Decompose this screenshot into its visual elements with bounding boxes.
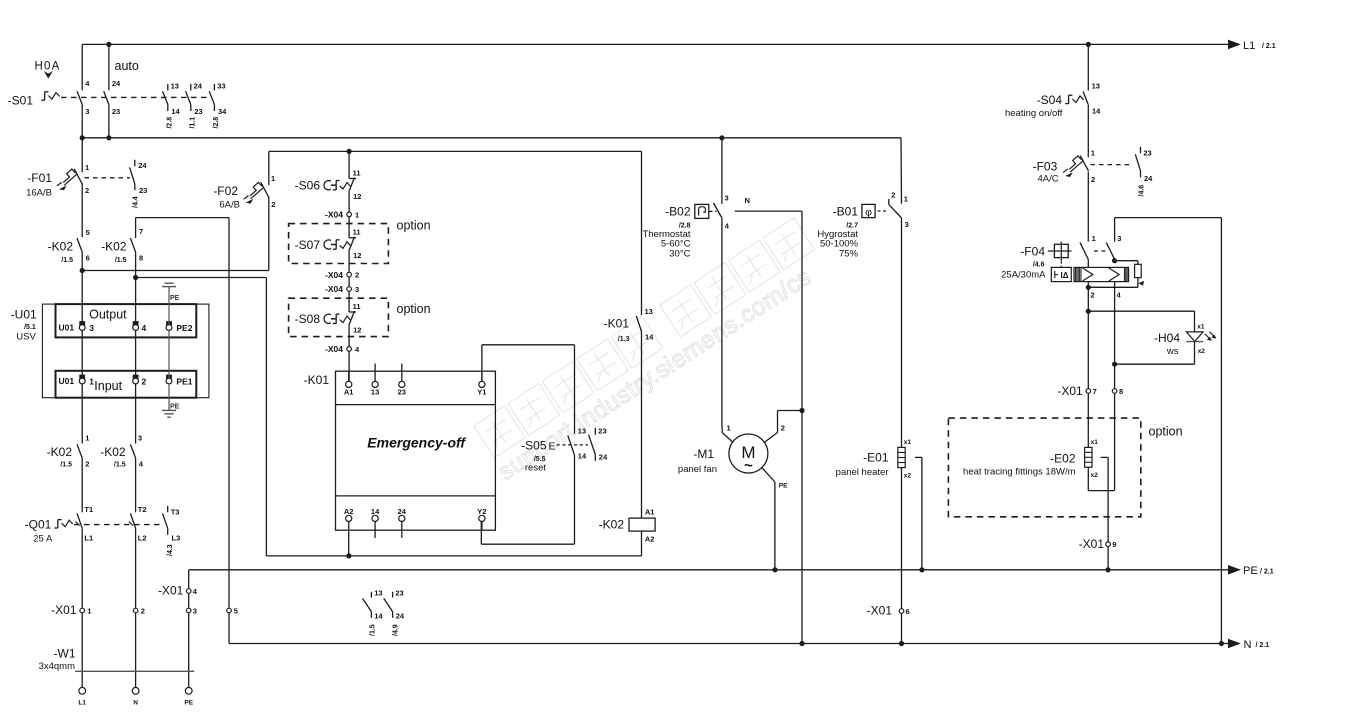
svg-text:x2: x2 (1198, 348, 1206, 355)
svg-text:A1: A1 (344, 388, 354, 397)
svg-text:A2: A2 (645, 535, 655, 544)
svg-text:13: 13 (371, 388, 379, 397)
heater E02 heat tracing (963, 439, 1098, 479)
svg-text:24: 24 (398, 507, 407, 516)
svg-text:U01: U01 (59, 376, 75, 386)
wire PE bus (189, 569, 1240, 571)
svg-text:x1: x1 (1197, 323, 1205, 330)
svg-text:2: 2 (781, 424, 785, 433)
svg-text:PE: PE (170, 403, 180, 410)
node S06 tap (347, 149, 352, 154)
wire F03 pin2 to F04 (1087, 172, 1089, 242)
svg-text:T3: T3 (171, 508, 180, 517)
wire S04-14 to F03 (1087, 105, 1089, 158)
svg-text:-X04: -X04 (325, 270, 343, 280)
svg-text:3: 3 (89, 323, 94, 333)
svg-text:/2.8: /2.8 (213, 117, 220, 129)
svg-text:3x4qmm: 3x4qmm (39, 661, 76, 672)
wire K01 A2 to return bus (348, 530, 350, 556)
wire return riser down (265, 278, 267, 556)
svg-text:24: 24 (138, 161, 147, 170)
wire F04 pole1 blade to sensor (1087, 259, 1089, 267)
svg-text:-W1: -W1 (54, 647, 76, 661)
svg-text:PE: PE (184, 700, 193, 707)
svg-text:3: 3 (193, 606, 197, 615)
relay block K01 Emergency-off (304, 364, 496, 538)
svg-text:2: 2 (271, 200, 275, 209)
wire N stub to M1 (735, 210, 802, 212)
wire X04-3 to S08 (348, 291, 350, 312)
svg-text:2: 2 (1091, 175, 1095, 184)
svg-text:33: 33 (217, 81, 225, 90)
svg-text:23: 23 (139, 186, 147, 195)
svg-text:-H04: -H04 (1154, 331, 1180, 345)
arrow actuate H0A (44, 71, 53, 79)
wire X01-4 to X01-3 (188, 593, 190, 608)
svg-text:Y1: Y1 (477, 388, 486, 397)
svg-text:14: 14 (374, 612, 383, 621)
svg-text:11: 11 (353, 168, 361, 177)
wire K02-8 bus to return riser (136, 277, 267, 279)
svg-text:1: 1 (904, 195, 908, 204)
svg-text:option: option (1149, 425, 1183, 439)
node bus2/S01-23 (106, 135, 111, 140)
svg-text:IΔ: IΔ (1061, 271, 1069, 280)
svg-text:x2: x2 (904, 473, 912, 480)
wire K02 pin2 to Q01 T1 (81, 458, 83, 512)
svg-text:13: 13 (578, 427, 586, 436)
option box S08 (289, 298, 389, 336)
contact K02 7/8 (101, 227, 143, 264)
node L1/S01-24 junction (106, 42, 111, 47)
svg-text:11: 11 (353, 302, 361, 311)
contact S01 aux 33/34 (209, 81, 227, 128)
svg-text:Input: Input (94, 379, 122, 393)
svg-text:-S06: -S06 (295, 179, 321, 193)
svg-text:34: 34 (218, 107, 227, 116)
svg-text:14: 14 (578, 452, 587, 461)
svg-text:23: 23 (1143, 149, 1151, 158)
svg-text:25A/30mA: 25A/30mA (1001, 270, 1046, 281)
svg-text:3: 3 (138, 433, 142, 442)
svg-text:N: N (745, 196, 750, 205)
svg-text:13: 13 (1092, 82, 1100, 91)
svg-text:3: 3 (355, 285, 359, 294)
svg-text:8: 8 (1119, 387, 1123, 396)
svg-text:1: 1 (87, 606, 91, 615)
svg-text:-U01: -U01 (11, 308, 37, 322)
wire U01 out4 to in2 (135, 330, 137, 378)
svg-text:8: 8 (139, 254, 143, 263)
wire bus2 to F01 pin1 (81, 138, 83, 172)
node bus2/S01-3 (80, 135, 85, 140)
contact F03 aux 23/24 (1135, 147, 1153, 197)
svg-text:φ: φ (865, 206, 872, 218)
svg-text:PE: PE (170, 295, 180, 302)
svg-text:x1: x1 (1091, 439, 1099, 446)
svg-text:/1.5: /1.5 (115, 257, 127, 264)
svg-text:-X01: -X01 (51, 603, 77, 617)
option box S07 (289, 224, 389, 264)
svg-text:-B01: -B01 (833, 205, 859, 219)
svg-text:-K02: -K02 (599, 517, 625, 531)
svg-text:-F02: -F02 (213, 184, 238, 198)
svg-text:24: 24 (112, 79, 121, 88)
bus arrow N (1228, 639, 1241, 649)
ground PE top (165, 282, 174, 284)
svg-text:heat tracing fittings 18W/m: heat tracing fittings 18W/m (963, 467, 1076, 478)
wire K02 pin6 to node (81, 252, 83, 271)
svg-text:E: E (549, 441, 556, 453)
svg-text:L1: L1 (78, 700, 86, 707)
wire E01 PE hook (915, 456, 922, 458)
wire K02-7 riser (135, 218, 137, 238)
svg-text:N: N (133, 700, 138, 707)
svg-text:-X01: -X01 (158, 584, 184, 598)
node M1-2/N (799, 408, 804, 413)
svg-text:-X01: -X01 (1079, 537, 1105, 551)
terminal W1 PE (185, 687, 192, 694)
svg-text:14: 14 (645, 333, 654, 342)
wire emergency top line (269, 150, 642, 152)
svg-text:25 A: 25 A (33, 534, 53, 545)
contact K02 aux 23/24 (384, 588, 405, 636)
wire B02 pin4 to M1 pin1 (721, 218, 723, 427)
contact K02 1/2 (47, 433, 90, 468)
wire L1 to S01 pin4 (81, 44, 83, 90)
wire S01 output bus (82, 137, 901, 139)
wire Q01 L2 to X01-2 (135, 529, 137, 609)
wire bus2 to B01 pin1 (900, 138, 903, 204)
svg-text:1: 1 (271, 174, 275, 183)
svg-text:5: 5 (234, 606, 238, 615)
wire S06 pin11 (348, 151, 350, 178)
wire F04 pole3 riser N (1220, 218, 1222, 644)
switch S04 heating on/off (1005, 82, 1101, 119)
terminal X01-2 (133, 608, 138, 613)
svg-text:x2: x2 (1091, 472, 1099, 479)
wire F04 pole3 feed (1114, 218, 1116, 242)
node K01-A2 junction (346, 553, 351, 558)
wire F02 riser (268, 197, 270, 270)
wire L1 to S01 pin24 (108, 44, 110, 90)
svg-text:24: 24 (396, 612, 405, 621)
svg-text:1: 1 (1091, 149, 1095, 158)
svg-text:-X01: -X01 (867, 604, 893, 618)
svg-text:13: 13 (645, 307, 653, 316)
node N/E01 (899, 641, 904, 646)
UPS block U01 (11, 304, 209, 398)
svg-text:3: 3 (725, 194, 729, 203)
contact K02 aux 13/14 (363, 588, 384, 636)
svg-text:1: 1 (727, 424, 731, 433)
svg-text:24: 24 (194, 81, 203, 90)
svg-text:reset: reset (525, 462, 546, 473)
svg-text:30°C: 30°C (669, 248, 690, 259)
svg-text:-K01: -K01 (304, 373, 330, 387)
wire bus2 to B02 pin3 (721, 138, 723, 204)
svg-text:9: 9 (1112, 540, 1116, 549)
terminal X01-6 (899, 609, 904, 614)
terminal X01-4 (186, 589, 191, 594)
svg-text:-S04: -S04 (1037, 93, 1063, 107)
svg-text:-S05: -S05 (521, 438, 547, 452)
svg-text:/1.5: /1.5 (61, 257, 73, 264)
svg-text:12: 12 (353, 325, 361, 334)
svg-text:13: 13 (171, 81, 179, 90)
svg-text:-X04: -X04 (325, 210, 343, 220)
svg-text:3: 3 (905, 220, 909, 229)
svg-text:7: 7 (1093, 387, 1097, 396)
svg-text:A1: A1 (645, 508, 655, 517)
svg-text:2: 2 (355, 271, 359, 280)
option box E02 (948, 418, 1140, 517)
svg-text:16A/B: 16A/B (26, 188, 52, 199)
svg-text:/2.8: /2.8 (166, 117, 173, 129)
pushbutton S05 reset (521, 427, 608, 474)
svg-text:23: 23 (398, 388, 406, 397)
node PE/M1 (772, 567, 777, 572)
svg-text:23: 23 (112, 107, 120, 116)
svg-text:1: 1 (85, 433, 89, 442)
breaker F03 (1063, 149, 1133, 184)
svg-text:-F04: -F04 (1020, 244, 1045, 258)
wire N bus (229, 643, 1240, 645)
wire F04 pole1 sensor to X01-7 (1087, 282, 1089, 389)
wire N riser x229 (228, 218, 230, 609)
pushbutton S06 (295, 168, 362, 201)
svg-text:-E01: -E01 (863, 450, 889, 464)
svg-text:~: ~ (744, 458, 753, 475)
svg-text:-K02: -K02 (100, 445, 126, 459)
svg-text:N: N (1244, 639, 1252, 651)
svg-text:6A/B: 6A/B (219, 200, 240, 211)
svg-text:/1.5: /1.5 (60, 462, 72, 469)
wire E02 PE hook (1101, 456, 1108, 458)
svg-text:L2: L2 (138, 534, 147, 543)
svg-text:PE: PE (779, 483, 788, 490)
wire PE corner to X01-4 (188, 570, 190, 589)
svg-text:/4.6: /4.6 (1139, 185, 1146, 197)
svg-text:-Q01: -Q01 (25, 517, 52, 531)
svg-text:auto: auto (115, 59, 139, 73)
svg-text:14: 14 (171, 107, 180, 116)
svg-text:-K02: -K02 (101, 239, 127, 253)
breaker F01 (57, 163, 130, 195)
wire U01 PE column (168, 287, 170, 325)
svg-text:panel fan: panel fan (678, 464, 717, 475)
svg-text:Emergency-off: Emergency-off (367, 435, 466, 451)
motor M1 panel fan (678, 411, 802, 570)
node F04-4/H04 return (1112, 362, 1117, 367)
wire E02 x2 return (1087, 467, 1089, 490)
terminal X01-5 (227, 608, 232, 613)
wire X04-4 to K01 A1 (348, 351, 350, 381)
thermostat B02 (642, 194, 729, 260)
contact K02 3/4 (100, 433, 143, 468)
svg-text:-S01: -S01 (8, 93, 34, 107)
terminal X01-9 (1106, 542, 1111, 547)
svg-text:3: 3 (85, 107, 89, 116)
svg-text:-E02: -E02 (1050, 452, 1076, 466)
terminal X04-4 (347, 347, 352, 352)
wire U01 input1 to K02 pin1 (81, 384, 83, 444)
heater E01 panel heater (836, 439, 912, 479)
node K02-6 junction (80, 268, 85, 273)
svg-text:1: 1 (85, 163, 89, 172)
svg-text:5: 5 (86, 228, 90, 237)
contact F01 aux 24/23 (130, 160, 148, 208)
wire X01-7 to E02 (1087, 393, 1089, 447)
bus arrow PE (1228, 565, 1241, 575)
node F04-2/H04 (1086, 309, 1091, 314)
wire N riser x802 (801, 211, 803, 643)
wire K01 Y2 to S05 (480, 522, 482, 531)
hygrostat B01 (817, 191, 908, 260)
svg-text:PE: PE (1243, 565, 1258, 577)
wire X01-1 to W1 L1 (81, 613, 83, 688)
svg-text:11: 11 (353, 228, 361, 237)
wire K01 Y1 loop (481, 371, 483, 381)
wire F02 pin1 (268, 151, 270, 185)
svg-text:2: 2 (142, 376, 147, 386)
svg-text:2: 2 (1091, 290, 1095, 299)
svg-text:13: 13 (374, 588, 382, 597)
terminal W1 N (132, 687, 139, 694)
node PE/E01 (919, 567, 924, 572)
wire B01 pin3 to E01 (901, 218, 903, 447)
wire S06-12 to X04-1 (348, 192, 350, 212)
cable W1 marker (75, 670, 194, 672)
svg-text:1: 1 (1092, 234, 1096, 243)
decorative watermark URL (494, 263, 817, 486)
svg-text:2: 2 (141, 606, 145, 615)
wire U01 in2 to K02 pin3 (135, 384, 137, 444)
svg-text:/ 2.1: / 2.1 (1256, 642, 1270, 649)
svg-text:/ 2.1: / 2.1 (1262, 43, 1276, 50)
wire X01-8 into option (1114, 393, 1116, 490)
svg-text:-K01: -K01 (604, 317, 630, 331)
wire K02-8 to node (135, 252, 137, 278)
svg-text:/4.9: /4.9 (393, 624, 400, 636)
coil K02 (599, 508, 655, 544)
svg-text:-B02: -B02 (665, 205, 691, 219)
svg-text:H0A: H0A (35, 60, 61, 72)
bus arrow L1 (1228, 40, 1241, 50)
svg-text:12: 12 (353, 192, 361, 201)
svg-text:7: 7 (139, 227, 143, 236)
svg-text:x1: x1 (904, 439, 912, 446)
svg-text:option: option (397, 219, 431, 233)
wire E01 x2 to N (901, 613, 903, 643)
terminal X01-1 (80, 608, 85, 613)
lamp H04 (1088, 311, 1216, 364)
terminal X01-7 (1086, 389, 1091, 394)
wire U01 output3 to input1 (81, 330, 83, 378)
wire K02 coil A2 riser (641, 531, 643, 556)
svg-text:Y2: Y2 (477, 507, 486, 516)
pushbutton S07 (295, 228, 362, 261)
wire S01 pin3 to bus2 (81, 105, 83, 138)
wire K02-6 bus to F02 (82, 270, 269, 272)
contact S01 aux 24/23 (186, 81, 203, 128)
wire L1 to S04 pin13 (1087, 44, 1089, 90)
contact S01 aux 13/14 (163, 81, 181, 128)
svg-text:4A/C: 4A/C (1037, 174, 1058, 185)
svg-text:USV: USV (16, 332, 36, 343)
svg-text:L3: L3 (172, 534, 181, 543)
svg-text:T1: T1 (84, 505, 93, 514)
terminal W1 L1 (79, 687, 86, 694)
wire S07-12 to X04-2 (348, 251, 350, 272)
wire X04-2 to X04-3 (348, 277, 350, 287)
wire X01-2 to W1 N (135, 613, 137, 688)
node PE/E02 (1106, 567, 1111, 572)
svg-text:/1.5: /1.5 (114, 462, 126, 469)
svg-text:/4.4: /4.4 (133, 196, 140, 208)
svg-text:panel heater: panel heater (836, 467, 889, 478)
svg-text:PE2: PE2 (176, 323, 192, 333)
svg-text:-F03: -F03 (1033, 159, 1058, 173)
svg-text:14: 14 (1092, 107, 1101, 116)
terminal X04-3 (347, 287, 352, 292)
svg-text:A2: A2 (344, 507, 354, 516)
wire S08-12 to X04-4 (348, 326, 350, 347)
svg-text:/1.1: /1.1 (189, 117, 196, 129)
svg-text:-F01: -F01 (27, 171, 52, 185)
node N/F04 (1219, 641, 1224, 646)
svg-text:PE1: PE1 (176, 376, 192, 386)
svg-text:23: 23 (598, 427, 606, 436)
svg-text:2: 2 (85, 459, 89, 468)
svg-text:2: 2 (891, 191, 895, 200)
motor breaker Q01 (25, 505, 181, 556)
svg-text:23: 23 (194, 107, 202, 116)
wire K01-14 to K02 coil A1 (641, 332, 643, 519)
wire L1 top bus (82, 43, 1239, 45)
svg-text:-X01: -X01 (1057, 384, 1083, 398)
wire X01-3 to W1 PE (188, 613, 190, 688)
svg-text:option: option (397, 302, 431, 316)
svg-text:24: 24 (1144, 174, 1153, 183)
contact K02 5/6 (48, 228, 90, 264)
breaker F02 (244, 174, 276, 209)
svg-text:/4.3: /4.3 (167, 544, 174, 556)
svg-text:24: 24 (599, 453, 608, 462)
svg-text:-K02: -K02 (47, 445, 73, 459)
svg-text:-S07: -S07 (295, 238, 321, 252)
svg-text:Output: Output (89, 307, 127, 321)
wire Q01 L1 to X01-1 (81, 529, 83, 609)
svg-text:L1: L1 (84, 534, 93, 543)
svg-text:4: 4 (142, 323, 147, 333)
svg-text:-K02: -K02 (48, 239, 74, 253)
svg-text:T2: T2 (138, 505, 147, 514)
svg-text:12: 12 (353, 251, 361, 260)
decorative watermark CJK (474, 218, 815, 458)
svg-text:/1.5: /1.5 (369, 624, 376, 636)
wire F01 pin2 to K02 pin5 (81, 184, 83, 238)
wire K01-13 riser (641, 151, 643, 315)
contact K01 13/14 (604, 307, 655, 343)
wire node to U01 output 3 (81, 271, 83, 325)
wire K02 pin4 to Q01 T2 (135, 458, 137, 512)
svg-text:L1: L1 (1243, 40, 1255, 52)
pushbutton S08 (295, 302, 362, 335)
svg-text:-X04: -X04 (325, 344, 343, 354)
svg-text:14: 14 (371, 507, 380, 516)
terminal X04-2 (347, 272, 352, 277)
